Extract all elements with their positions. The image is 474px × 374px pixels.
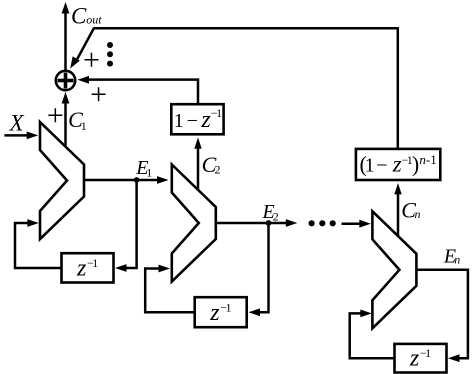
svg-text:2: 2	[273, 209, 279, 223]
label plus sign upper	[83, 43, 100, 76]
wire feedback from z^-1 box n to quantizer n lower arm	[350, 310, 395, 359]
svg-text:): )	[412, 152, 419, 177]
horizontal ellipsis dots	[309, 220, 336, 226]
svg-text:z: z	[200, 107, 211, 133]
svg-text:z: z	[76, 256, 87, 282]
wire E1 junction down to z^-1 box 1	[115, 180, 137, 272]
wire Cout vertical from adder top	[62, 2, 70, 72]
svg-text:−1: −1	[220, 300, 231, 314]
svg-text:−: −	[187, 110, 198, 132]
label plus sign right of adder	[90, 78, 107, 111]
svg-text:+: +	[90, 78, 107, 111]
svg-text:z: z	[409, 346, 420, 372]
svg-text:z: z	[209, 300, 220, 326]
svg-text:X: X	[9, 111, 25, 136]
wire E2 junction down to z^-1 box 2	[249, 223, 269, 316]
wire riser from (1-z^-1)^(n-1) box top	[397, 27, 400, 150]
block 1-z^-1	[171, 104, 223, 134]
adder	[56, 71, 75, 90]
label Cout	[71, 4, 102, 29]
wire E1 from quantizer 1 tip to quantizer 2	[84, 176, 169, 184]
label Cn	[401, 197, 420, 222]
node E1 junction	[134, 177, 140, 183]
svg-text:1: 1	[365, 155, 375, 177]
wire C2 from quantizer 2 up into 1-z^-1 box	[194, 137, 201, 192]
wire Cn from quantizer n up into (1-z^-1)^(n-1) box	[394, 183, 401, 237]
quantizer stage n chevron	[372, 211, 416, 328]
delay box z^-1 stage 1	[62, 253, 114, 282]
wire X input arrow	[4, 132, 38, 140]
delay box z^-1 stage n	[395, 344, 447, 373]
svg-text:2: 2	[215, 163, 221, 177]
wire feedback from z^-1 box 2 to quantizer 2 lower arm	[145, 265, 195, 313]
svg-text:+: +	[83, 43, 100, 76]
quantizer stage 1 chevron	[40, 122, 84, 239]
svg-text:z: z	[392, 152, 402, 177]
wire C1 from quantizer 1 up into adder	[62, 92, 70, 147]
svg-text:n: n	[454, 252, 460, 266]
wire top feedback line horizontal y=28	[94, 27, 398, 30]
wire E2 from quantizer 2 tip	[216, 219, 297, 227]
svg-text:1: 1	[81, 119, 87, 133]
svg-text:-1: -1	[426, 152, 437, 167]
svg-text:−: −	[376, 155, 387, 177]
svg-text:C: C	[71, 4, 87, 29]
label E1	[135, 157, 152, 179]
vertical ellipsis dots	[107, 42, 113, 67]
block (1-z^-1)^(n-1)	[356, 149, 440, 180]
wire feedback from z^-1 box 1 to quantizer 1 lower arm	[15, 219, 62, 268]
label plus sign at C1	[47, 99, 64, 132]
wire riser above 1-z^-1 box	[197, 78, 200, 104]
delay box z^-1 stage 2	[195, 297, 247, 327]
svg-text:−1: −1	[420, 346, 431, 360]
svg-text:−1: −1	[87, 256, 98, 270]
svg-text:1: 1	[174, 110, 184, 132]
wire from 1-z^-1 riser into adder right	[78, 76, 199, 84]
label C1	[68, 107, 87, 133]
wire En from quantizer n tip down to z^-1 box n	[416, 270, 468, 362]
wire diagonal into adder with arrowhead	[70, 28, 94, 69]
svg-text:+: +	[47, 99, 64, 132]
svg-text:out: out	[86, 13, 102, 27]
label C2	[202, 152, 221, 177]
node E2 junction	[266, 220, 272, 226]
label X	[9, 111, 25, 136]
quantizer stage 2 chevron	[172, 165, 216, 282]
svg-text:1: 1	[146, 165, 152, 179]
svg-text:−1: −1	[211, 106, 222, 120]
label E2	[262, 201, 279, 223]
wire dots to quantizer n	[342, 220, 371, 228]
svg-text:n: n	[415, 207, 421, 221]
label En	[443, 245, 460, 267]
